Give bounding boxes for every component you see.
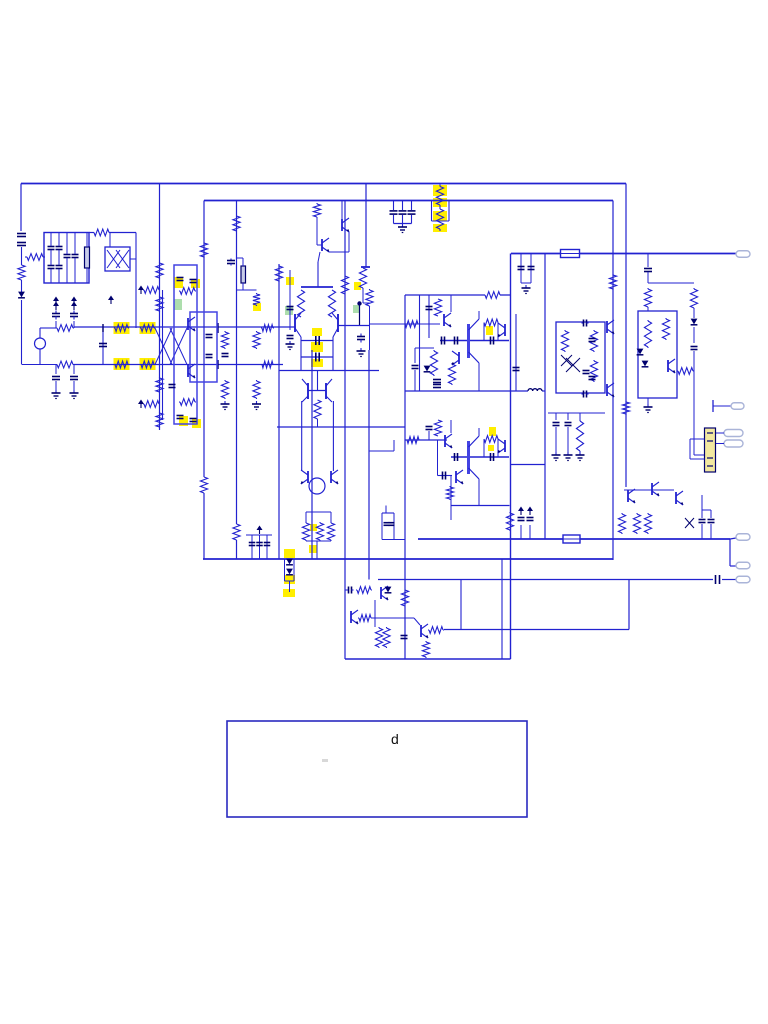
- box feedback network: [174, 265, 197, 424]
- wire: [109, 232, 136, 234]
- connector J5: [736, 534, 750, 541]
- connector J1: [736, 251, 750, 258]
- resistor R43: [448, 363, 455, 385]
- transistor Q14: [452, 351, 460, 365]
- wiper arrow: [138, 400, 144, 409]
- resistor R33a: [359, 267, 366, 289]
- resistor R63: [383, 627, 390, 648]
- transistor Q4: [322, 238, 330, 252]
- resistor R59: [644, 513, 651, 534]
- resistor R49: [662, 318, 669, 340]
- transistor Q25: [421, 624, 429, 638]
- transistor Q7: [302, 379, 308, 402]
- resistor R14: [156, 296, 163, 312]
- wire driver mid: [440, 340, 509, 342]
- capacitor C21: [227, 259, 235, 266]
- box inner stage: [190, 312, 217, 382]
- wire to connector: [730, 538, 736, 539]
- junction tick: [217, 360, 219, 369]
- wire cap leg: [402, 201, 404, 211]
- wire cap leg: [411, 201, 413, 211]
- resistor R33c: [341, 276, 348, 294]
- wire cap leg: [393, 215, 395, 224]
- wire: [521, 282, 531, 284]
- ground top cluster: [398, 224, 407, 233]
- wire: [693, 327, 695, 343]
- wire: [450, 420, 452, 433]
- resistor R1: [25, 254, 45, 261]
- wire: [469, 436, 480, 447]
- wire feedback return: [378, 579, 713, 581]
- wire: [625, 415, 627, 455]
- crossing signal2: [170, 328, 187, 365]
- transistor Q24: [351, 610, 359, 624]
- capacitor C4: [56, 247, 63, 250]
- capacitor C102: [408, 211, 416, 214]
- capacitor C47: [699, 520, 706, 523]
- green mark branch: [353, 305, 360, 313]
- resistor R42: [430, 350, 437, 376]
- resistor R57: [618, 513, 625, 534]
- resistor R47: [690, 288, 697, 309]
- wire: [647, 254, 649, 268]
- resistor R22: [221, 380, 228, 399]
- wire jog: [369, 450, 394, 452]
- resistor R41: [484, 319, 498, 326]
- resistor R54: [609, 274, 616, 290]
- ground: [357, 348, 366, 357]
- capacitor C36b: [433, 380, 441, 383]
- yellow highlight: [174, 277, 183, 288]
- capacitor C30: [264, 543, 271, 546]
- source V1: [35, 338, 46, 349]
- wire: [329, 251, 349, 253]
- wire: [266, 535, 268, 559]
- wire lower driver bottom: [451, 505, 510, 507]
- title block frame: [227, 721, 527, 817]
- capacitor C36: [518, 267, 525, 270]
- resistor R3 body: [85, 247, 90, 268]
- chassis arrow: [527, 507, 533, 516]
- wire protection net: [444, 629, 629, 631]
- wire: [73, 381, 75, 390]
- fuse F2: [563, 535, 580, 543]
- capacitor C46: [527, 518, 534, 521]
- wire: [382, 539, 405, 541]
- wire: [714, 433, 716, 444]
- resistor R36: [316, 522, 323, 541]
- capacitor C24 highlighted: [316, 336, 319, 345]
- resistor R53: [590, 360, 597, 382]
- wire: [55, 381, 57, 390]
- ground: [552, 452, 561, 461]
- capacitor C40b: [455, 453, 458, 461]
- wire: [648, 282, 694, 284]
- wire: [428, 431, 430, 440]
- wire vertical x162: [162, 290, 164, 420]
- wire emitters bottom: [301, 356, 333, 358]
- capacitor C43: [589, 339, 596, 342]
- wire: [483, 323, 485, 341]
- wire: [694, 454, 705, 456]
- wire branch bar: [361, 266, 370, 268]
- wire: [50, 269, 52, 283]
- ground: [52, 390, 61, 399]
- transistor Q11: [444, 313, 452, 327]
- wire cap leg: [402, 215, 404, 224]
- wire vertical x236: [236, 201, 238, 525]
- wire: [237, 257, 244, 259]
- resistor R66: [401, 590, 408, 606]
- wire: [293, 559, 295, 581]
- transistor Q3: [342, 218, 350, 232]
- diode D4 highlighted: [286, 569, 293, 575]
- yellow highlight emitter caps: [312, 328, 322, 336]
- yellow dot bias2: [309, 545, 317, 553]
- diode bridge mark: [566, 358, 580, 372]
- wire vertical x236 lower: [236, 540, 238, 559]
- ground: [576, 452, 585, 461]
- wire cap to connector: [722, 579, 736, 581]
- resistor R60: [356, 587, 372, 594]
- wire signal path lower: [74, 364, 283, 366]
- wire output bases: [624, 489, 674, 491]
- wire: [306, 511, 331, 513]
- transistor Q10: [331, 470, 339, 484]
- wire vertical x516: [515, 314, 517, 391]
- wire: [715, 443, 724, 445]
- wire vertical x345: [344, 500, 346, 659]
- capacitor C100: [390, 211, 398, 214]
- capacitor C20: [222, 354, 229, 357]
- capacitor C7: [72, 255, 79, 258]
- resistor R27: [200, 242, 207, 258]
- capacitor C15: [177, 416, 184, 419]
- wire: [693, 351, 695, 455]
- wire: [259, 535, 261, 559]
- wire stub: [712, 400, 714, 412]
- yellow dot: [253, 303, 261, 311]
- capacitor C2: [48, 247, 55, 250]
- resistor R56: [506, 512, 513, 531]
- wire corner down: [729, 539, 731, 566]
- wire: [369, 307, 371, 350]
- transistor Q9: [301, 470, 309, 484]
- capacitor C22: [287, 307, 294, 310]
- yellow highlight: [179, 416, 188, 426]
- junction: [357, 301, 361, 305]
- yellow highlight: [433, 198, 447, 207]
- capacitor C48: [708, 520, 715, 523]
- wire second rail: [204, 200, 613, 202]
- capacitor C32: [442, 337, 445, 345]
- capacitor C3: [48, 266, 55, 269]
- wire: [497, 439, 499, 457]
- wire yellow pair bottom: [432, 220, 450, 222]
- diode mark: [685, 518, 694, 528]
- ground: [70, 390, 79, 399]
- wire: [74, 258, 76, 283]
- capacitor C37: [528, 267, 535, 270]
- wire: [450, 295, 452, 312]
- wire: [284, 559, 286, 581]
- wire yellow pair right leg: [448, 201, 450, 222]
- svg-text:d: d: [391, 731, 399, 747]
- wire: [710, 524, 712, 539]
- wire vas input: [369, 323, 440, 325]
- resistor R201 highlighted: [436, 185, 443, 208]
- wire emitters top: [301, 340, 333, 342]
- wire: [372, 617, 414, 619]
- wire cap join: [394, 223, 412, 225]
- wire vertical x204: [203, 201, 205, 478]
- wire: [567, 427, 569, 452]
- diode D1: [17, 243, 26, 246]
- wire: [647, 398, 649, 404]
- yellow highlight: [192, 419, 201, 428]
- wire driver top: [405, 294, 485, 296]
- wire: [497, 323, 499, 341]
- resistor R7 highlighted: [114, 325, 129, 332]
- capacitor C42b: [443, 472, 446, 480]
- wire to connector2: [730, 565, 736, 567]
- yellow highlight diode pair: [284, 575, 295, 584]
- yellow highlight R top pair upper: [433, 185, 447, 196]
- wire vas out: [277, 426, 405, 428]
- transistor Q13: [498, 323, 506, 337]
- wire: [289, 581, 291, 592]
- capacitor C53: [389, 523, 395, 526]
- wire: [317, 419, 319, 427]
- capacitor C50: [401, 636, 408, 639]
- yellow highlight input R upper: [114, 322, 130, 334]
- capacitor C27: [357, 334, 365, 343]
- wire source bottom: [39, 349, 41, 365]
- transistor Q17: [668, 359, 676, 373]
- capacitor C35b: [412, 366, 419, 369]
- wire: [478, 363, 480, 391]
- wire: [58, 269, 60, 283]
- wire relay top: [109, 233, 111, 248]
- yellow highlight: [140, 322, 156, 334]
- resistor R45b: [434, 420, 441, 436]
- wire: [362, 289, 364, 303]
- capacitor C42: [582, 391, 589, 398]
- crossing relay contact2: [116, 250, 129, 268]
- capacitor C23: [287, 336, 294, 339]
- wire: [74, 233, 76, 255]
- wire: [689, 439, 691, 459]
- wire: [520, 525, 522, 539]
- wire: [567, 413, 569, 420]
- wire vertical x136: [135, 233, 137, 329]
- transistor Q1: [188, 317, 196, 331]
- wire vertical x629: [628, 580, 630, 630]
- transistor Q8: [326, 379, 332, 402]
- capacitor C51: [716, 575, 720, 584]
- capacitor C35: [565, 423, 572, 426]
- wire: [317, 371, 319, 391]
- wire: [690, 458, 705, 460]
- wire ground bus: [203, 558, 613, 560]
- capacitor C52: [384, 523, 390, 526]
- capacitor C5: [56, 266, 63, 269]
- wire diagonal: [414, 618, 420, 625]
- wire: [419, 295, 421, 391]
- trimmer R17: [143, 287, 160, 294]
- wire: [530, 254, 532, 284]
- resistor R32: [313, 203, 320, 218]
- resistor R24: [253, 331, 260, 349]
- connector CN1 4-pin: [705, 428, 716, 472]
- wire inductor out: [542, 390, 545, 392]
- capacitor C31: [426, 307, 433, 310]
- capacitor C45: [518, 518, 525, 521]
- wire: [701, 495, 703, 510]
- wire vertical x279: [278, 264, 280, 559]
- wire: [713, 405, 731, 407]
- wire bases: [308, 390, 326, 392]
- resistor R33e: [328, 290, 335, 317]
- wire vertical x405: [404, 295, 406, 659]
- wire: [483, 439, 485, 457]
- wire cap leg: [393, 201, 395, 211]
- crossing signal: [155, 328, 172, 365]
- ground: [564, 452, 573, 461]
- chassis arrow: [53, 297, 59, 306]
- resistor R38: [485, 292, 500, 299]
- capacitor C41: [582, 320, 589, 327]
- green mark: [174, 299, 182, 310]
- wire: [86, 268, 88, 283]
- wire: [73, 365, 75, 375]
- wire vertical x626: [625, 184, 627, 488]
- yellow highlight: [140, 358, 156, 370]
- wire jog v: [393, 440, 395, 451]
- capacitor C9: [70, 311, 78, 320]
- capacitor C37b: [433, 385, 441, 388]
- capacitor C12: [99, 344, 107, 347]
- wire: [242, 283, 244, 290]
- wire: [702, 509, 711, 511]
- wire: [317, 244, 322, 246]
- yellow dot driver: [486, 326, 493, 335]
- resistor R31: [275, 265, 282, 282]
- wire: [40, 327, 56, 329]
- wire: [86, 233, 88, 248]
- resistor R40: [405, 321, 418, 328]
- yellow highlight: [433, 224, 447, 232]
- box bias network: [556, 322, 605, 393]
- transistor Q2: [188, 364, 196, 378]
- capacitor C13: [177, 278, 184, 281]
- ground: [286, 341, 295, 350]
- capacitor C34b: [491, 337, 494, 345]
- wire bias rail: [548, 412, 605, 414]
- resistor R37: [327, 522, 334, 541]
- wire source top: [39, 328, 41, 338]
- capacitor C8: [52, 311, 60, 320]
- transistor Q18: [607, 320, 615, 334]
- faint mark: [322, 759, 328, 762]
- capacitor C39b: [426, 427, 433, 430]
- diode D6: [691, 319, 698, 325]
- wire: [237, 289, 257, 291]
- wire: [520, 254, 522, 284]
- resistor R33b: [366, 289, 373, 307]
- wire: [332, 401, 334, 471]
- wire: [469, 352, 480, 363]
- wire: [414, 370, 416, 391]
- wire: [22, 364, 56, 366]
- resistor R23: [253, 293, 260, 306]
- wire: [478, 479, 480, 506]
- wire: [715, 432, 724, 434]
- yellow highlight input R lower: [114, 358, 130, 370]
- wire: [341, 201, 343, 220]
- capacitor C28: [249, 543, 256, 546]
- yellow dot driver lower: [489, 427, 496, 436]
- wire left drop: [20, 184, 22, 232]
- wire: [305, 512, 307, 522]
- chassis arrow: [257, 526, 263, 535]
- resistor R35: [302, 522, 309, 541]
- box mains filter: [44, 233, 89, 284]
- ground: [522, 285, 531, 294]
- capacitor C16: [190, 419, 197, 422]
- wire: [478, 311, 480, 319]
- resistor R58: [633, 513, 640, 534]
- resistor R6: [56, 361, 74, 368]
- wire: [332, 337, 334, 371]
- capacitor C101: [399, 211, 407, 214]
- diode D9: [385, 587, 392, 593]
- yellow highlight emitter caps2: [311, 342, 323, 352]
- wire: [50, 250, 52, 265]
- resistor R12: [261, 361, 274, 368]
- diode D5: [424, 366, 431, 372]
- wire: [450, 476, 452, 521]
- yellow dot driver lower2: [488, 445, 494, 451]
- resistor R47b: [446, 486, 453, 500]
- yellow highlight emitter caps3: [311, 359, 323, 367]
- wire: [55, 365, 57, 375]
- wire: [289, 270, 291, 330]
- transistor Q18b: [456, 470, 464, 484]
- resistor R29: [233, 524, 240, 540]
- box output bias: [638, 311, 677, 398]
- wire: [300, 337, 302, 371]
- yellow dot bias: [310, 524, 317, 531]
- wire: [242, 258, 244, 266]
- transistor Q5: [295, 313, 301, 337]
- resistor R62: [375, 627, 382, 648]
- wire: [701, 524, 703, 539]
- yellow dot: [286, 277, 294, 285]
- resistor R44: [407, 437, 419, 444]
- wire: [469, 319, 480, 330]
- trimmer R18: [143, 401, 160, 408]
- resistor R33d: [297, 290, 304, 317]
- capacitor C1: [17, 234, 26, 237]
- resistor R19: [179, 288, 196, 295]
- resistor R25: [253, 380, 260, 399]
- wire vertical x510: [510, 254, 512, 660]
- wire: [251, 535, 253, 559]
- wire vertical x159: [159, 184, 161, 431]
- diode D2: [18, 292, 25, 298]
- wire: [437, 440, 439, 476]
